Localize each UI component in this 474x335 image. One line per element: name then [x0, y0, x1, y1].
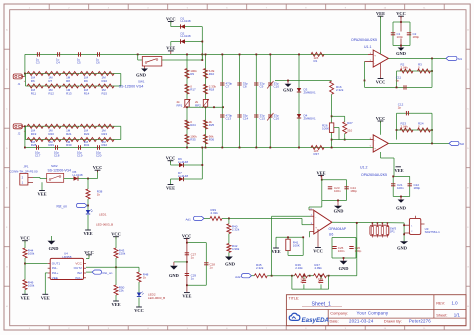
- svg-text:Your Company: Your Company: [357, 310, 389, 315]
- svg-text:IN2: IN2: [77, 271, 82, 275]
- svg-text:U1.1: U1.1: [364, 45, 371, 49]
- svg-text:2.04k: 2.04k: [401, 125, 409, 129]
- svg-text:180p: 180p: [350, 189, 357, 193]
- svg-text:SD27561-1: SD27561-1: [425, 230, 441, 234]
- svg-text:R13: R13: [66, 91, 72, 95]
- svg-text:G: G: [467, 267, 469, 269]
- svg-text:VEE: VEE: [182, 294, 191, 299]
- svg-text:G: G: [6, 267, 8, 269]
- svg-text:VEE: VEE: [37, 192, 46, 197]
- svg-text:R17: R17: [190, 88, 196, 92]
- svg-text:IN1+: IN1+: [52, 271, 59, 275]
- svg-text:TITLE:: TITLE:: [289, 296, 300, 300]
- svg-text:R9: R9: [84, 79, 88, 83]
- svg-text:R36: R36: [209, 137, 215, 141]
- svg-text:GND: GND: [136, 73, 146, 78]
- svg-text:Rst_on: Rst_on: [57, 205, 68, 209]
- svg-text:R1: R1: [314, 59, 318, 63]
- svg-text:180p: 180p: [413, 35, 420, 39]
- svg-text:2.32k: 2.32k: [256, 266, 264, 270]
- svg-text:1k: 1k: [97, 192, 101, 196]
- svg-text:OPA2604AU2K5: OPA2604AU2K5: [361, 173, 387, 177]
- svg-text:GND: GND: [397, 245, 407, 250]
- svg-text:Ad2: Ad2: [235, 275, 241, 279]
- svg-text:R10: R10: [102, 79, 108, 83]
- svg-text:U1.2: U1.2: [360, 165, 367, 169]
- svg-text:R27: R27: [347, 121, 353, 125]
- svg-text:VEE: VEE: [83, 231, 92, 236]
- svg-text:R7: R7: [48, 79, 52, 83]
- svg-text:R35: R35: [190, 137, 196, 141]
- svg-text:GND: GND: [396, 206, 406, 211]
- svg-text:VCC: VCC: [111, 232, 121, 237]
- svg-text:VCC: VCC: [134, 308, 144, 313]
- svg-text:JP1: JP1: [23, 165, 29, 169]
- svg-text:1/1: 1/1: [454, 313, 461, 318]
- svg-text:C9: C9: [260, 85, 264, 89]
- svg-text:R22: R22: [84, 132, 90, 136]
- svg-text:R14: R14: [84, 91, 90, 95]
- svg-text:SS-12D00 VG4: SS-12D00 VG4: [119, 84, 144, 88]
- svg-text:100k: 100k: [28, 283, 35, 287]
- svg-text:CONN-TH_2P-P5.00: CONN-TH_2P-P5.00: [10, 169, 38, 173]
- svg-text:VCC: VCC: [396, 11, 406, 16]
- svg-text:VCC: VCC: [20, 236, 30, 241]
- svg-text:2.32k: 2.32k: [211, 211, 219, 215]
- svg-text:LL4148: LL4148: [178, 160, 188, 164]
- svg-text:R12: R12: [48, 91, 54, 95]
- svg-text:VEE: VEE: [41, 295, 50, 300]
- svg-text:R20: R20: [48, 132, 54, 136]
- svg-text:R9: R9: [190, 72, 194, 76]
- svg-text:C3: C3: [36, 61, 40, 65]
- svg-text:GND: GND: [49, 246, 59, 251]
- svg-text:-: -: [374, 61, 375, 65]
- svg-text:4.99k: 4.99k: [232, 247, 240, 251]
- svg-text:R11: R11: [31, 91, 37, 95]
- svg-text:C13: C13: [226, 117, 232, 121]
- svg-text:R19: R19: [31, 132, 37, 136]
- svg-text:100K: 100K: [293, 244, 300, 248]
- svg-text:IN2+: IN2+: [75, 276, 82, 280]
- svg-text:100n: 100n: [334, 189, 341, 193]
- svg-text:2p: 2p: [398, 105, 402, 109]
- svg-text:GND: GND: [396, 51, 406, 56]
- svg-text:180p: 180p: [414, 186, 421, 190]
- svg-text:Drawn By:: Drawn By:: [384, 318, 402, 323]
- svg-text:GND: GND: [169, 273, 179, 278]
- svg-text:R29: R29: [48, 143, 54, 147]
- svg-text:OPA604AP: OPA604AP: [329, 227, 347, 231]
- svg-text:R37: R37: [314, 152, 320, 156]
- svg-text:0p: 0p: [301, 280, 305, 284]
- svg-text:VEE: VEE: [394, 168, 403, 173]
- svg-text:VEE: VEE: [166, 186, 175, 191]
- svg-text:OUT1: OUT1: [52, 262, 61, 266]
- svg-text:C5: C5: [77, 61, 81, 65]
- svg-text:GND: GND: [339, 266, 349, 271]
- svg-text:VEE: VEE: [52, 276, 58, 280]
- svg-text:0p: 0p: [396, 79, 400, 83]
- svg-text:VCC: VCC: [313, 249, 323, 254]
- svg-text:VEE: VEE: [111, 302, 120, 307]
- svg-text:C7: C7: [226, 85, 230, 89]
- svg-text:R10: R10: [209, 72, 215, 76]
- svg-text:LED-0603_B: LED-0603_B: [148, 296, 165, 300]
- svg-text:VEE: VEE: [376, 11, 385, 16]
- svg-text:C18: C18: [54, 154, 60, 158]
- svg-text:Peter2276: Peter2276: [409, 318, 431, 323]
- svg-text:LL4148: LL4148: [178, 174, 188, 178]
- svg-text:Ad1: Ad1: [186, 217, 192, 221]
- svg-text:VCC: VCC: [84, 250, 94, 255]
- svg-text:1u: 1u: [191, 276, 195, 280]
- svg-text:C16: C16: [274, 117, 280, 121]
- svg-text:2p: 2p: [318, 280, 322, 284]
- svg-text:VCC: VCC: [182, 234, 192, 239]
- svg-text:-: -: [374, 139, 375, 143]
- svg-text:100k: 100k: [28, 252, 35, 256]
- svg-text:510: 510: [347, 128, 352, 132]
- svg-text:Date:: Date:: [330, 318, 339, 323]
- svg-text:RP2: RP2: [195, 103, 201, 107]
- svg-text:R25: R25: [209, 123, 215, 127]
- svg-text:R8: R8: [66, 79, 70, 83]
- svg-text:VCC: VCC: [376, 80, 386, 85]
- svg-text:R30: R30: [66, 143, 72, 147]
- svg-text:VCC: VCC: [93, 165, 103, 170]
- svg-text:REV:: REV:: [436, 301, 445, 306]
- svg-text:VCC: VCC: [75, 262, 82, 266]
- svg-text:180p: 180p: [355, 249, 362, 253]
- svg-text:-: -: [315, 215, 316, 219]
- svg-text:R23: R23: [102, 132, 108, 136]
- svg-text:GND: GND: [283, 87, 293, 92]
- svg-text:U6: U6: [329, 233, 334, 237]
- svg-text:C4: C4: [56, 61, 60, 65]
- svg-text:1.0: 1.0: [452, 301, 459, 306]
- svg-text:220k: 220k: [119, 252, 126, 256]
- svg-text:JP1: JP1: [390, 230, 395, 234]
- svg-text:ZMM5V1: ZMM5V1: [304, 117, 317, 121]
- svg-text:Rst_on: Rst_on: [103, 271, 113, 275]
- svg-text:R21: R21: [66, 132, 72, 136]
- svg-text:C19: C19: [77, 154, 83, 158]
- svg-text:1u: 1u: [191, 256, 195, 260]
- svg-text:OUT2: OUT2: [74, 266, 83, 270]
- svg-text:LL4148: LL4148: [73, 173, 83, 177]
- svg-text:SW2: SW2: [51, 164, 58, 168]
- svg-text:2.32k: 2.32k: [295, 266, 303, 270]
- svg-text:VEE: VEE: [20, 295, 29, 300]
- svg-text:VCC: VCC: [166, 156, 176, 161]
- svg-text:100n: 100n: [397, 186, 404, 190]
- svg-text:22k: 22k: [119, 289, 124, 293]
- svg-text:LED1: LED1: [99, 213, 107, 217]
- svg-text:LL4148: LL4148: [181, 19, 191, 23]
- svg-text:VEE: VEE: [166, 46, 175, 51]
- svg-text:C14: C14: [243, 117, 249, 121]
- svg-text:C17: C17: [35, 154, 41, 158]
- svg-text:4.99k: 4.99k: [314, 266, 322, 270]
- svg-text:RP1: RP1: [177, 103, 183, 107]
- svg-text:C10: C10: [274, 85, 280, 89]
- svg-text:2021-03-24: 2021-03-24: [349, 318, 374, 323]
- svg-text:Company:: Company:: [330, 310, 348, 315]
- svg-text:1u: 1u: [209, 266, 213, 270]
- svg-text:VCC: VCC: [376, 116, 386, 121]
- svg-text:R32: R32: [102, 143, 108, 147]
- svg-text:GND: GND: [334, 209, 344, 214]
- svg-text:R28: R28: [31, 143, 37, 147]
- svg-text:LED-0603_B: LED-0603_B: [96, 223, 113, 227]
- svg-text:ZMM5V1: ZMM5V1: [304, 91, 317, 95]
- svg-text:C15: C15: [260, 117, 266, 121]
- svg-text:100K: 100K: [322, 126, 329, 130]
- svg-text:1k: 1k: [143, 276, 147, 280]
- svg-text:LL4148: LL4148: [181, 34, 191, 38]
- svg-text:VCC: VCC: [166, 17, 176, 22]
- svg-text:C6: C6: [96, 61, 100, 65]
- svg-text:IN1-: IN1-: [52, 266, 58, 270]
- svg-text:2.04k: 2.04k: [401, 66, 409, 70]
- svg-text:SS-12D00-VG4: SS-12D00-VG4: [48, 169, 72, 173]
- svg-text:Sheet:: Sheet:: [436, 313, 447, 318]
- svg-text:SW1: SW1: [138, 79, 145, 83]
- svg-text:VEE: VEE: [271, 249, 280, 254]
- svg-text:C20: C20: [96, 154, 102, 158]
- svg-text:C8: C8: [243, 85, 247, 89]
- svg-text:SI1: SI1: [458, 57, 463, 61]
- svg-text:2.32k: 2.32k: [232, 227, 240, 231]
- svg-text:VEE: VEE: [316, 170, 325, 175]
- svg-text:GND: GND: [225, 262, 235, 267]
- svg-text:R6: R6: [31, 79, 35, 83]
- svg-text:100n: 100n: [397, 35, 404, 39]
- svg-text:SI2: SI2: [460, 142, 465, 146]
- svg-text:EasyEDA: EasyEDA: [302, 317, 330, 324]
- svg-text:R24: R24: [190, 123, 196, 127]
- svg-text:OPA2604AU2K5: OPA2604AU2K5: [351, 38, 377, 42]
- svg-text:2.32k: 2.32k: [336, 88, 344, 92]
- svg-text:R18: R18: [209, 88, 215, 92]
- svg-text:R31: R31: [84, 143, 90, 147]
- svg-text:100n: 100n: [338, 249, 345, 253]
- svg-text:R15: R15: [102, 91, 108, 95]
